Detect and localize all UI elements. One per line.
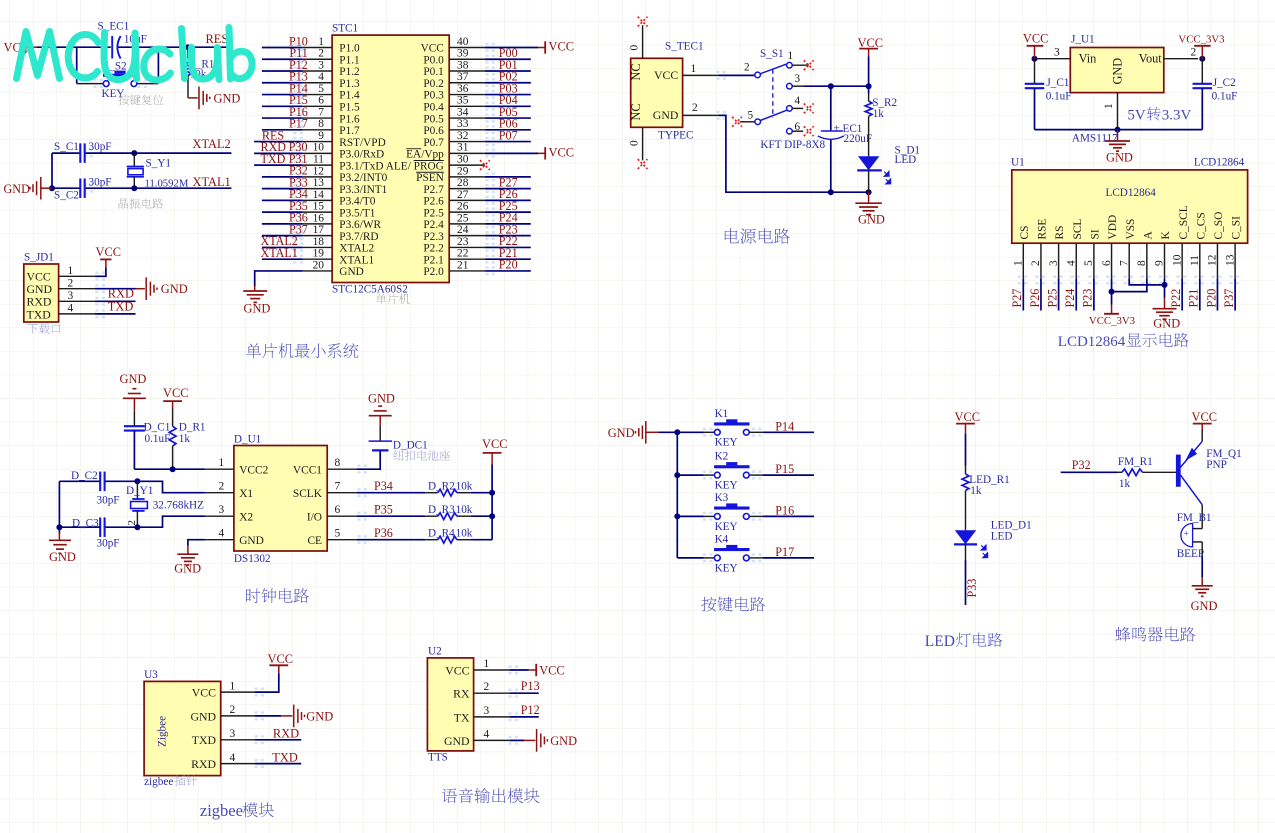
wire P37 net (U1) <box>1234 278 1236 310</box>
value BEEP (FM_B1) <box>1177 548 1204 560</box>
svg-text:32.768kHZ: 32.768kHZ <box>153 500 204 512</box>
capacitor D_C1 <box>124 411 145 469</box>
pin 18 XTAL2 (STC1) <box>303 236 375 255</box>
label P14 net <box>289 81 308 95</box>
svg-text:RXD: RXD <box>273 727 299 741</box>
label D_DC1 <box>393 439 428 451</box>
pin 2 (J_U1) <box>1164 46 1198 58</box>
pin 1 CS (U1 LCD12864) <box>1013 226 1031 279</box>
value 30pF (S_C2) <box>89 177 112 189</box>
wire D_R2 to VCC rail <box>471 492 492 494</box>
svg-text:10: 10 <box>313 142 325 154</box>
wire RXD net (S_JD1) <box>95 300 136 302</box>
label P20 net <box>1204 289 1218 308</box>
wire pin 9 left (STC1) <box>254 141 303 143</box>
svg-text:P21: P21 <box>1187 289 1201 308</box>
value 1k (LED_R1) <box>970 485 982 497</box>
pin 29 PSEN (STC1) <box>416 165 485 184</box>
label KEY (K1) <box>715 437 738 449</box>
caption zigbee插针 <box>144 775 197 788</box>
svg-text:35: 35 <box>457 95 469 107</box>
svg-text:GND: GND <box>653 108 679 122</box>
svg-text:P31: P31 <box>289 152 308 166</box>
pushbutton K1 <box>714 419 749 435</box>
svg-text:32: 32 <box>457 130 469 142</box>
svg-text:RX: RX <box>453 687 470 701</box>
svg-text:3: 3 <box>484 705 490 717</box>
wire K4 left <box>677 557 714 559</box>
wire A to VDD (U1) <box>1112 278 1147 291</box>
svg-text:K1: K1 <box>715 408 729 420</box>
pin 5 P1.4 (STC1) <box>303 83 360 102</box>
pin 2 P1.1 (STC1) <box>303 48 360 67</box>
wire pin 35 right (STC1) <box>485 105 531 107</box>
svg-text:D_U1: D_U1 <box>234 434 261 446</box>
wire K to ground (U1) <box>1164 278 1166 285</box>
svg-text:KEY: KEY <box>715 480 738 492</box>
svg-text:STC12C5A60S2: STC12C5A60S2 <box>332 284 408 296</box>
pin 8 A (U1 LCD12864) <box>1136 231 1154 279</box>
svg-text:GND: GND <box>1106 151 1133 165</box>
label P23 net <box>1081 289 1095 308</box>
wire pin 25 right (STC1) <box>485 223 531 225</box>
power port VCC (clock) <box>482 437 507 464</box>
pin 4 RXD (U3) <box>191 752 255 771</box>
pin 11 C_CS (U1 LCD12864) <box>1189 212 1207 278</box>
wire RXD net (U3) <box>255 739 301 741</box>
pin 40 VCC (STC1) <box>421 36 485 55</box>
svg-text:FM_B1: FM_B1 <box>1177 512 1212 524</box>
pin 12 C_SO (U1 LCD12864) <box>1207 212 1225 279</box>
resistor S_R2 <box>865 94 872 127</box>
svg-text:12: 12 <box>1207 254 1219 266</box>
svg-text:P20: P20 <box>499 258 518 272</box>
svg-text:P1.1: P1.1 <box>339 54 359 66</box>
pin 2 (S_JD1) <box>59 277 95 289</box>
svg-text:7: 7 <box>318 106 324 118</box>
pin 12 P3.2/INT0 (STC1) <box>303 165 388 184</box>
label P00 net <box>499 46 518 60</box>
svg-text:P37: P37 <box>1222 289 1236 308</box>
wire pin 14 left (STC1) <box>262 199 303 201</box>
svg-text:10k: 10k <box>456 527 473 539</box>
svg-text:LED: LED <box>991 531 1013 543</box>
ground (D_DC1) <box>368 392 395 426</box>
svg-text:33: 33 <box>457 118 469 130</box>
connector S_JD1 <box>24 264 59 322</box>
label KEY (K3) <box>715 521 738 533</box>
wire P32 net <box>1061 471 1117 473</box>
pin 2 RSE (U1 LCD12864) <box>1030 219 1048 279</box>
wire pin 13 left (STC1) <box>262 188 303 190</box>
LED S_D1 <box>857 126 891 192</box>
pin 3 TXD (U3) <box>192 728 255 747</box>
title 单片机最小系统 <box>246 343 358 358</box>
svg-text:K2: K2 <box>715 451 729 463</box>
svg-text:GND: GND <box>1111 58 1125 85</box>
label P24 net <box>499 211 518 225</box>
label P33 net <box>289 175 308 189</box>
wire pin 12 left (STC1) <box>262 176 303 178</box>
pin 6 P1.5 (STC1) <box>303 95 360 114</box>
svg-text:Vin: Vin <box>1079 52 1097 66</box>
svg-text:30pF: 30pF <box>89 177 112 189</box>
junction EC1 top <box>828 83 834 89</box>
wire P22 net (U1) <box>1181 278 1183 310</box>
label TYPEC <box>658 129 693 141</box>
svg-text:P34: P34 <box>374 479 393 493</box>
wire K4 right <box>749 557 814 559</box>
wire pin 27 right (STC1) <box>485 199 531 201</box>
svg-text:GND: GND <box>444 734 470 748</box>
svg-text:P3.7/RD: P3.7/RD <box>339 231 378 243</box>
svg-text:KEY: KEY <box>715 562 738 574</box>
label P36 net <box>374 526 393 540</box>
resistor D_R2 <box>425 489 471 496</box>
svg-text:6: 6 <box>795 121 801 133</box>
label U2 <box>428 646 442 658</box>
pin 4 GND (U2) <box>444 728 509 747</box>
title 语音输出模块 <box>442 788 540 803</box>
LED LED_D1 <box>954 530 988 557</box>
svg-text:KEY: KEY <box>715 521 738 533</box>
crystal D_Y1 <box>126 481 147 527</box>
value 10k (D_R4) <box>456 527 473 539</box>
title zigbee模块 <box>200 801 274 820</box>
label P22 net <box>499 234 518 248</box>
label K3 <box>715 492 729 504</box>
svg-text:P2.5: P2.5 <box>423 207 444 219</box>
svg-text:30: 30 <box>457 154 469 166</box>
label XTAL1 net (pin19) <box>261 246 298 260</box>
pin 2 number (S_S1) <box>744 62 750 74</box>
svg-text:30pF: 30pF <box>97 495 120 507</box>
wire pin 24 right (STC1) <box>485 235 531 237</box>
value 10k (D_R2) <box>456 480 473 492</box>
label XTAL2 net (pin18) <box>261 234 298 248</box>
label K2 <box>715 451 729 463</box>
junction VDD node (U1) <box>1109 289 1115 295</box>
svg-text:D_R3: D_R3 <box>428 504 455 516</box>
wire pin 5 left (STC1) <box>262 94 303 96</box>
label S_TEC1 <box>665 41 704 53</box>
svg-text:8: 8 <box>1136 260 1148 266</box>
svg-text:P2.0: P2.0 <box>423 266 444 278</box>
label P14 net <box>775 419 794 433</box>
value LED (S_D1) <box>895 154 917 166</box>
svg-text:STC1: STC1 <box>332 23 358 35</box>
ground (key circuit) <box>608 421 659 444</box>
svg-text:P1.4: P1.4 <box>339 90 360 102</box>
wire X2 net <box>105 516 205 527</box>
svg-text:RXD: RXD <box>191 757 216 771</box>
label P16 net <box>775 503 794 517</box>
svg-text:5: 5 <box>318 83 324 95</box>
wire key ground rail <box>659 432 678 558</box>
wire P25 net (U1) <box>1058 278 1060 310</box>
junction X1 node <box>134 478 140 484</box>
capacitor S_EC1 <box>112 36 120 59</box>
svg-text:KEY: KEY <box>715 437 738 449</box>
power port VCC (power circuit) <box>858 36 883 56</box>
ground (J_U1) <box>1105 130 1133 165</box>
svg-text:TXD: TXD <box>272 751 298 765</box>
pin 1 (S_JD1) <box>59 265 95 277</box>
svg-text:19: 19 <box>313 248 325 260</box>
pin 35 P0.4 (STC1) <box>423 95 485 114</box>
wire crystal ground rail (clock) <box>56 481 62 534</box>
svg-text:GND: GND <box>120 372 147 386</box>
label P23 net <box>499 222 518 236</box>
svg-text:CE: CE <box>307 535 322 547</box>
pin stub 3 (S_S1) <box>792 73 803 86</box>
svg-text:1: 1 <box>219 457 225 469</box>
svg-text:D_C1: D_C1 <box>144 421 171 433</box>
svg-text:K3: K3 <box>715 492 729 504</box>
svg-text:VCC_3V3: VCC_3V3 <box>1178 33 1224 45</box>
svg-text:10k: 10k <box>456 504 473 516</box>
junction EC1 bottom <box>828 189 834 195</box>
svg-text:GND: GND <box>239 535 264 547</box>
label P01 net <box>499 58 518 72</box>
svg-text:2: 2 <box>68 277 74 289</box>
value 1k (D_R1) <box>179 433 191 445</box>
wire pin 39 right (STC1) <box>485 58 531 60</box>
value 30pF (S_C1) <box>89 141 112 153</box>
wire pin20 to ground (STC1) <box>255 271 303 291</box>
pin 26 P2.5 (STC1) <box>423 201 485 220</box>
ground (STC1 pin20) <box>243 291 270 316</box>
svg-text:P17: P17 <box>289 117 308 131</box>
svg-text:9: 9 <box>318 130 324 142</box>
svg-text:NC: NC <box>629 103 643 120</box>
value 220uF <box>844 133 873 145</box>
value 0.1uF (J_C2) <box>1212 91 1238 103</box>
svg-text:D_R1: D_R1 <box>179 421 206 433</box>
svg-text:27: 27 <box>457 189 469 201</box>
wire pin29 right (STC1) <box>485 176 531 178</box>
svg-text:P1.0: P1.0 <box>339 43 360 55</box>
svg-text:3: 3 <box>318 59 324 71</box>
wire pin1 to VCC (U3) <box>255 673 279 692</box>
pin 1 (S_TEC1) <box>683 63 719 75</box>
wire VCC1 to battery <box>357 452 381 470</box>
label S_R1 <box>190 58 215 70</box>
resistor S_R1 <box>185 47 192 98</box>
svg-text:TXD: TXD <box>192 733 217 747</box>
svg-text:EA/Vpp: EA/Vpp <box>406 149 444 161</box>
wire pin 19 left (STC1) <box>262 258 303 260</box>
label P21 net <box>499 246 518 260</box>
junction LED bottom <box>866 189 872 195</box>
svg-text:TTS: TTS <box>428 752 448 764</box>
svg-text:BEEP: BEEP <box>1177 548 1204 560</box>
svg-text:S_TEC1: S_TEC1 <box>665 41 704 53</box>
svg-text:SCLK: SCLK <box>293 488 323 500</box>
pin 19 XTAL1 (STC1) <box>303 248 375 267</box>
svg-text:TXD: TXD <box>27 307 52 321</box>
power port VCC (U3) <box>268 652 293 673</box>
svg-text:P3.5/T1: P3.5/T1 <box>339 207 375 219</box>
svg-text:VCC1: VCC1 <box>293 464 322 476</box>
label RXD net (U3) <box>273 727 299 741</box>
pushbutton S_S2 <box>103 71 137 87</box>
svg-text:P16: P16 <box>775 503 794 517</box>
junction key rail K2 <box>674 472 680 478</box>
wire pin 3 left (STC1) <box>262 70 303 72</box>
svg-text:1: 1 <box>230 680 236 692</box>
label S_Y1 <box>146 158 172 170</box>
pin name RXD (S_JD1) <box>27 295 52 309</box>
power port VCC (S_JD1) <box>96 245 121 268</box>
value 0.1uF (D_C1) <box>145 433 171 445</box>
svg-text:1: 1 <box>788 50 794 62</box>
svg-text:GND: GND <box>608 426 635 440</box>
svg-text:13: 13 <box>1224 254 1236 266</box>
svg-text:2: 2 <box>219 481 225 493</box>
label P26 net <box>499 187 518 201</box>
value LED (LED_D1) <box>991 531 1013 543</box>
svg-text:U2: U2 <box>428 646 442 658</box>
no-ERC marker bottom (S_TEC1) <box>638 159 648 169</box>
label U1 <box>1011 157 1025 169</box>
svg-text:0.1uF: 0.1uF <box>1046 91 1072 103</box>
junction VCC rail (D_R2) <box>489 490 495 496</box>
svg-text:VCC: VCC <box>549 40 574 54</box>
svg-text:P1.5: P1.5 <box>339 102 360 114</box>
logo MCUclub <box>17 28 253 81</box>
wire pin 11 left (STC1) <box>254 164 303 166</box>
ground (S_JD1) <box>136 277 188 300</box>
capacitor D_C3 <box>59 517 104 537</box>
label S_EC1 <box>98 20 130 32</box>
wire TXD net (S_JD1) <box>95 313 136 315</box>
svg-text:2: 2 <box>1030 260 1042 266</box>
label P03 net <box>499 81 518 95</box>
svg-text:TXD: TXD <box>108 299 134 313</box>
wire D_R4 to VCC rail <box>471 539 492 541</box>
pin 9 RST/VPD (STC1) <box>303 130 386 149</box>
label LCD12864 (inside) <box>1106 187 1157 199</box>
svg-text:J_C2: J_C2 <box>1213 77 1236 89</box>
pin 1 VCC (U2) <box>445 658 509 677</box>
svg-text:LED: LED <box>925 633 955 650</box>
svg-text:0.1uF: 0.1uF <box>1212 91 1238 103</box>
label RXD net <box>108 287 134 301</box>
label S_S2 <box>103 60 127 72</box>
svg-text:VCC: VCC <box>654 68 678 82</box>
pin 31 EA/Vpp (STC1) <box>406 142 485 161</box>
svg-text:S_C1: S_C1 <box>54 141 79 153</box>
label P13 net <box>289 70 308 84</box>
wire pin1 to VCC (U2) <box>509 669 536 671</box>
title 电源电路 <box>725 228 790 243</box>
wire P12 net <box>509 716 538 718</box>
label P07 net <box>499 128 518 142</box>
svg-text:P0.5: P0.5 <box>423 113 444 125</box>
overline PROG (pin30) <box>414 160 444 162</box>
pin name Vin <box>1079 52 1097 66</box>
label P26 net <box>1028 289 1042 308</box>
junction key rail K3 <box>674 513 680 519</box>
svg-text:P2.7: P2.7 <box>423 184 444 196</box>
svg-text:25: 25 <box>457 212 469 224</box>
svg-text:VCC2: VCC2 <box>239 464 268 476</box>
svg-text:zigbee: zigbee <box>200 801 243 820</box>
wire P26 net (U1) <box>1040 278 1042 310</box>
caption 晶振电路 <box>119 198 164 209</box>
label J_U1 <box>1071 33 1095 45</box>
wire crystal ground rail <box>49 153 55 191</box>
wire pin 7 left (STC1) <box>262 117 303 119</box>
svg-text:VCC: VCC <box>955 410 980 424</box>
junction VCC (J_U1) <box>1032 56 1038 62</box>
svg-text:VDD: VDD <box>1107 215 1119 240</box>
resistor D_R4 <box>425 536 471 543</box>
svg-text:+: + <box>1184 530 1189 540</box>
svg-text:1: 1 <box>484 658 490 670</box>
pin 3 TX (U2) <box>454 705 510 724</box>
wire VCC to R2 <box>868 56 870 93</box>
wire pin 8 left (STC1) <box>262 129 303 131</box>
wire ground rail (J_U1) <box>1035 129 1203 131</box>
label P37 net <box>1222 289 1236 308</box>
svg-text:17: 17 <box>313 224 325 236</box>
svg-text:P17: P17 <box>775 545 794 559</box>
svg-text:21: 21 <box>457 259 469 271</box>
wire P33 net <box>965 544 967 605</box>
svg-text:P12: P12 <box>521 703 540 717</box>
svg-text:10k: 10k <box>456 480 473 492</box>
pin 3 RS (U1 LCD12864) <box>1048 226 1066 279</box>
svg-text:P32: P32 <box>1072 458 1091 472</box>
wire K2 right <box>749 474 814 476</box>
svg-text:GND: GND <box>190 709 216 723</box>
pin stub 4 with no-ERC (S_S1) <box>792 95 813 113</box>
wire pin 18 left (STC1) <box>262 246 303 248</box>
wire pin 23 right (STC1) <box>485 246 531 248</box>
value 1k (S_R2) <box>873 108 885 120</box>
label P17 net <box>289 117 308 131</box>
junction VCC_3V3 (J_U1) <box>1199 56 1205 62</box>
label P34 net <box>289 187 308 201</box>
svg-text:P2.1: P2.1 <box>423 254 443 266</box>
caption 纽扣电池座 <box>393 450 450 461</box>
svg-text:12: 12 <box>313 165 325 177</box>
svg-text:2: 2 <box>318 48 324 60</box>
pin 28 P2.7 (STC1) <box>423 177 485 196</box>
label FM_B1 <box>1177 512 1212 524</box>
wire pin2 to GND (S_JD1) <box>95 288 136 290</box>
ground (crystal circuit) <box>4 177 53 200</box>
svg-text:5: 5 <box>335 528 341 540</box>
svg-text:GND: GND <box>306 710 333 724</box>
svg-text:6: 6 <box>335 504 341 516</box>
pin 15 P3.5/T1 (STC1) <box>303 201 376 220</box>
label P13 net <box>521 679 540 693</box>
svg-text:2: 2 <box>230 704 236 716</box>
wire VDD to VCC_3V3 (U1) <box>1111 278 1113 291</box>
svg-text:220uF: 220uF <box>844 133 873 145</box>
svg-text:A: A <box>1142 231 1154 240</box>
pin 22 P2.1 (STC1) <box>423 248 485 267</box>
buzzer FM_B1 <box>1181 524 1202 547</box>
svg-text:13: 13 <box>313 177 325 189</box>
pin 25 P2.4 (STC1) <box>423 212 485 231</box>
label P24 net <box>1063 289 1077 308</box>
value 30pF (D_C2) <box>97 495 120 507</box>
svg-text:P0.3: P0.3 <box>423 90 444 102</box>
